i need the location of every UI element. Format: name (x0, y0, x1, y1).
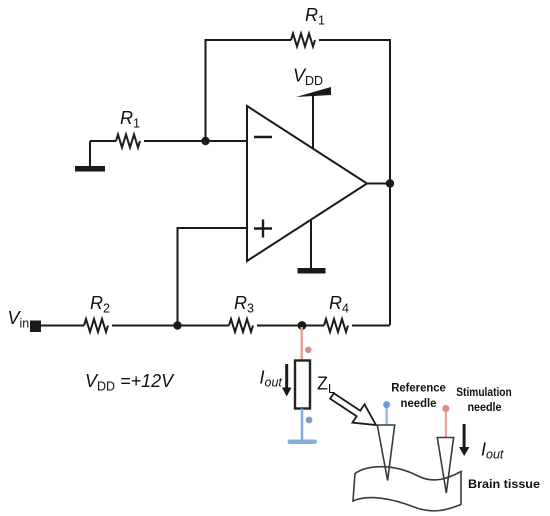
wire inverting input (90, 140, 116, 142)
pin reference (blue) (383, 401, 390, 425)
svg-text:Reference: Reference (391, 381, 446, 395)
svg-text:R1: R1 (305, 5, 325, 28)
resistor R1 (feedback) (291, 34, 315, 47)
needle reference (377, 425, 394, 481)
svg-text:Vin: Vin (8, 308, 30, 331)
terminal Vin square (30, 321, 41, 333)
op-amp minus sign (254, 136, 272, 138)
svg-text:ZL: ZL (317, 374, 335, 397)
wire Vin to R2 (41, 325, 84, 327)
resistor R1 (input) (116, 135, 140, 148)
resistor R2 (84, 319, 108, 332)
svg-text:VDD: VDD (293, 66, 323, 89)
wire resistor to op-amp minus (144, 140, 247, 142)
svg-text:Iout: Iout (260, 368, 283, 390)
load ZL rectangle (295, 361, 310, 409)
ground bar (blue) (288, 440, 318, 445)
op-amp plus sign (254, 220, 272, 238)
svg-text:R1: R1 (120, 108, 140, 131)
op-amp output wire (367, 183, 390, 185)
arrow Iout (right) (459, 424, 469, 456)
wire top feedback (206, 40, 292, 141)
node: load junction (298, 321, 307, 330)
svg-text:VDD =+12V: VDD =+12V (85, 371, 175, 394)
node: output junction (386, 179, 394, 187)
callout block arrow (330, 393, 376, 425)
svg-text:R2: R2 (90, 293, 110, 316)
wire R2 to R3 (112, 325, 229, 327)
node: non-inverting junction (173, 321, 181, 329)
svg-text:Stimulation: Stimulation (456, 385, 512, 399)
svg-text:needle: needle (401, 396, 437, 410)
resistor R3 (229, 319, 253, 332)
arrow Iout (left) (282, 364, 292, 397)
svg-text:needle: needle (468, 400, 502, 414)
wire load top (salmon) (300, 327, 303, 360)
wire load bottom (blue) (301, 409, 304, 442)
resistor R4 (324, 319, 348, 332)
node: inverting input junction (201, 137, 209, 145)
ground symbol (input R1) (75, 166, 105, 172)
op-amp VDD supply stem (312, 93, 314, 148)
ground symbol (op-amp) (298, 268, 326, 274)
node salmon dot (305, 347, 311, 353)
svg-text:Iout: Iout (481, 440, 504, 462)
wire R4 to right rail (352, 325, 390, 327)
svg-text:R4: R4 (329, 293, 349, 316)
ground stem (input) (89, 141, 91, 166)
brain tissue ribbon (353, 467, 461, 511)
op-amp ground stem (310, 219, 312, 268)
pin stimulation (salmon) (442, 405, 449, 438)
svg-text:R3: R3 (234, 293, 254, 316)
wire R3 to R4 (257, 325, 324, 327)
node blue dot (306, 417, 313, 424)
wire feedback to right rail (319, 40, 390, 325)
svg-text:Brain tissue: Brain tissue (468, 477, 540, 491)
wire non-inverting input (178, 228, 248, 325)
op-amp U1 triangle (247, 106, 367, 261)
VDD wedge symbol (296, 87, 331, 97)
needle stimulation (437, 438, 453, 494)
